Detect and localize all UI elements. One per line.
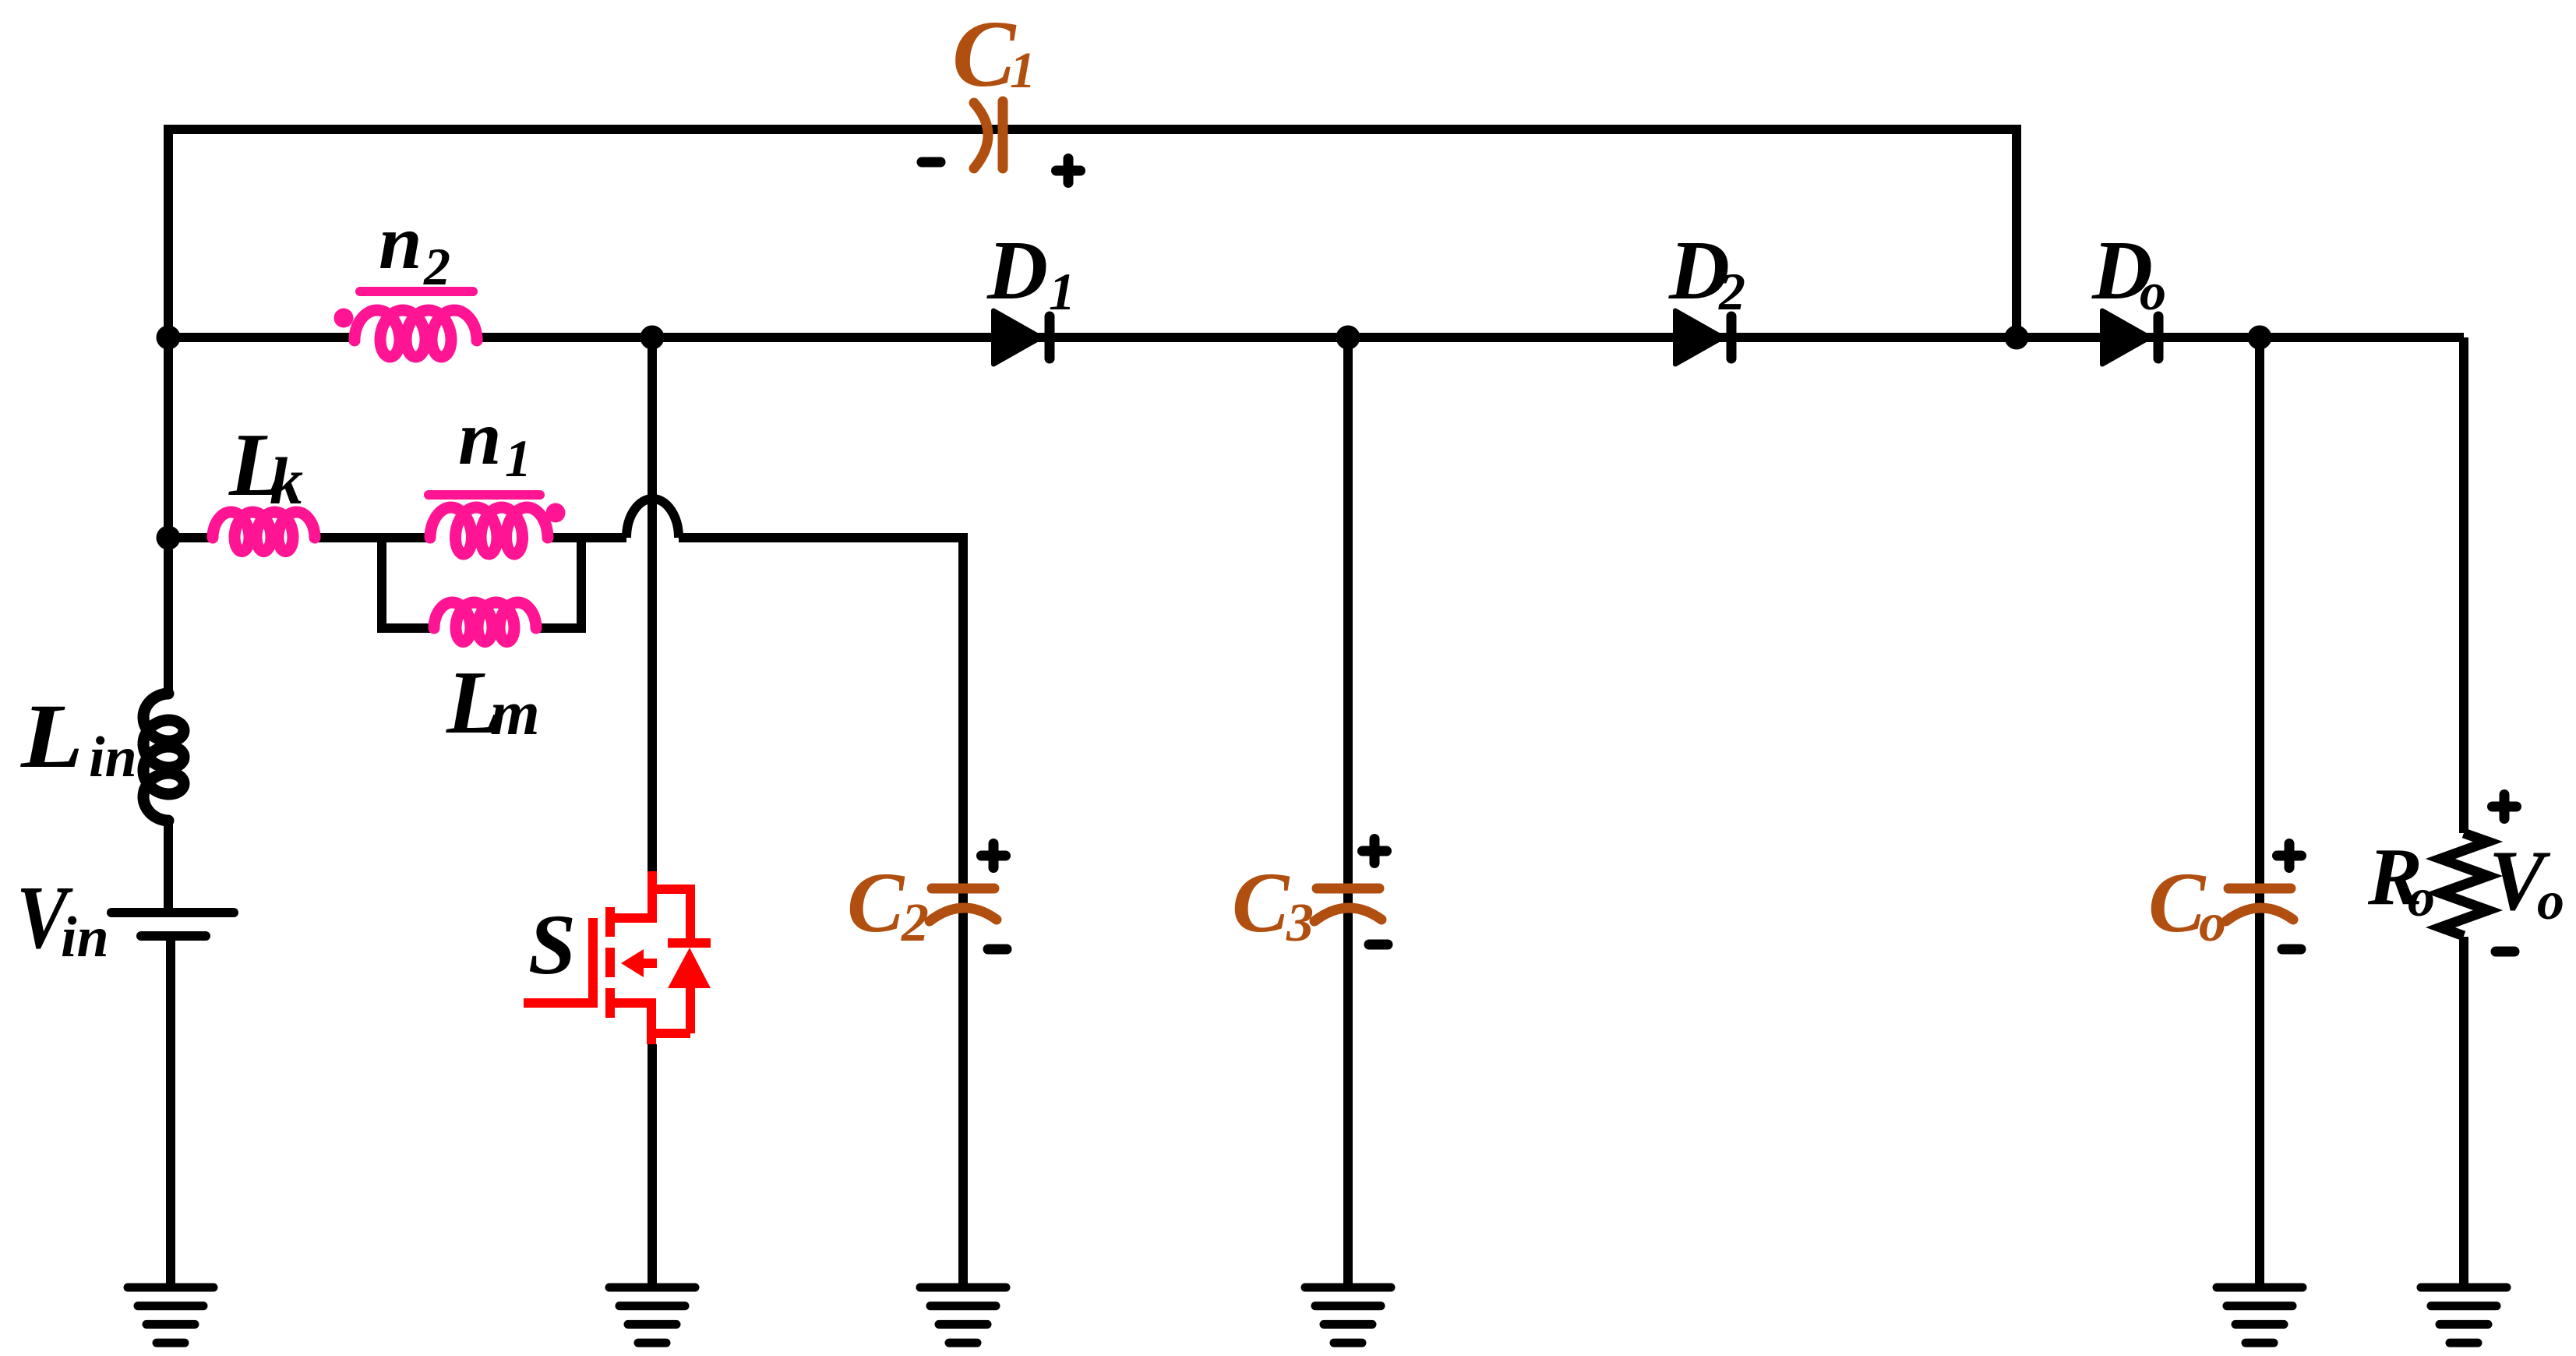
svg-text:m: m [490, 677, 540, 748]
ground Co [2217, 1287, 2303, 1343]
C1 minus sign [922, 157, 940, 168]
C1 plus sign [1057, 159, 1081, 183]
svg-text:k: k [270, 443, 303, 518]
ground C3 [1305, 1287, 1391, 1343]
label Do [2091, 224, 2166, 321]
svg-text:o: o [2408, 868, 2435, 928]
wire top C1 rail [168, 125, 2017, 337]
label D2 [1668, 224, 1745, 321]
label n1 [458, 394, 531, 488]
svg-text:2: 2 [901, 893, 929, 953]
svg-text:o: o [2199, 893, 2226, 953]
ground S [609, 1287, 695, 1343]
svg-text:S: S [528, 897, 576, 992]
capacitor C2 [930, 888, 997, 921]
svg-text:C: C [847, 855, 905, 950]
wire main horizontal (n2/diode rail) [168, 333, 2464, 342]
svg-text:in: in [61, 906, 109, 969]
diode D2 [1675, 311, 1731, 365]
wire Co rail [2255, 337, 2264, 1287]
Vo minus sign [2496, 947, 2514, 957]
Vo plus sign [2493, 795, 2517, 819]
inductor Lk [213, 512, 315, 552]
C3 plus sign [1363, 839, 1387, 863]
label Ro [2367, 831, 2435, 928]
ground C2 [920, 1287, 1006, 1343]
wire MOSFET drain drop [648, 337, 657, 871]
svg-text:C: C [1232, 855, 1290, 950]
svg-text:D: D [986, 224, 1048, 317]
label Vin [16, 868, 109, 969]
label Co [2148, 855, 2226, 953]
label Lin [20, 685, 137, 789]
node switch-top [640, 326, 665, 350]
svg-text:2: 2 [1718, 262, 1745, 321]
svg-text:1: 1 [1010, 42, 1036, 99]
node Co-top [2248, 326, 2272, 350]
Co plus sign [2278, 844, 2302, 868]
wire hop over MOSFET rail [626, 499, 679, 538]
node C3-top [1336, 326, 1360, 350]
svg-text:n: n [458, 394, 502, 481]
label Lm [446, 653, 540, 752]
wire Lm parallel loop [382, 533, 581, 628]
C2 minus sign [988, 945, 1007, 955]
diode Do [2102, 311, 2158, 365]
label Lk [228, 415, 303, 518]
svg-text:n: n [379, 199, 422, 285]
inductor winding n1 [429, 495, 566, 554]
diode D1 [993, 311, 1050, 365]
wire C2 lower rail [958, 888, 968, 1287]
battery Vin [111, 913, 234, 936]
wire Ro rail lower [2459, 937, 2468, 1287]
node Lk-left [157, 526, 181, 550]
svg-text:1: 1 [505, 429, 531, 488]
svg-text:3: 3 [1286, 893, 1314, 953]
wire Vin battery to ground [168, 821, 171, 1287]
transistor S (MOSFET with body diode) [524, 871, 711, 1044]
label S [528, 897, 576, 992]
capacitor C1 [974, 101, 1003, 168]
resistor Ro [2440, 833, 2488, 936]
capacitor Co [2226, 888, 2293, 921]
node C1-D2 [2005, 326, 2029, 350]
capacitor C3 [1314, 888, 1382, 921]
node n2-left [157, 326, 181, 350]
label C1 [952, 2, 1036, 107]
svg-text:o: o [2537, 871, 2564, 931]
svg-text:in: in [89, 726, 137, 789]
label C2 [847, 855, 929, 953]
wire secondary horizontal (Lk/n1 rail) [168, 533, 626, 542]
svg-text:C: C [952, 2, 1017, 107]
svg-text:o: o [2140, 262, 2166, 321]
svg-text:1: 1 [1049, 262, 1075, 321]
label D1 [986, 224, 1075, 321]
svg-text:L: L [20, 685, 83, 787]
inductor Lin [143, 694, 184, 821]
wire C3 rail [1343, 337, 1353, 1287]
wire MOSFET source to ground [648, 1044, 657, 1287]
wire n1 to C2 with corner [679, 538, 963, 888]
label n2 [379, 199, 450, 296]
svg-text:C: C [2148, 855, 2207, 950]
inductor Lm [434, 602, 536, 642]
label Vo [2489, 833, 2564, 931]
inductor winding n2 [334, 291, 478, 357]
C2 plus sign [982, 844, 1006, 868]
Co minus sign [2282, 945, 2301, 955]
wire left rail top [164, 129, 173, 694]
wire Ro rail upper [2459, 337, 2468, 833]
ground Vin [128, 1287, 213, 1343]
C3 minus sign [1369, 940, 1388, 950]
label C3 [1232, 855, 1314, 953]
ground Ro [2421, 1287, 2507, 1343]
svg-text:2: 2 [423, 237, 450, 296]
